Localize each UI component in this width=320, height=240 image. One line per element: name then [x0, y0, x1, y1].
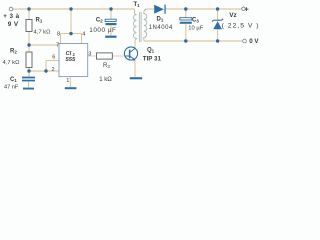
svg-text:1 kΩ: 1 kΩ — [99, 77, 112, 83]
svg-text:0 V: 0 V — [249, 38, 259, 45]
svg-text:R2: R2 — [10, 49, 17, 55]
svg-text:Vz: Vz — [229, 12, 236, 19]
svg-text:D1: D1 — [157, 16, 164, 22]
svg-text:1000 µF: 1000 µF — [89, 27, 116, 34]
svg-text:Q1: Q1 — [147, 47, 155, 53]
svg-text:R1: R1 — [36, 18, 43, 24]
svg-text:4,7 kΩ: 4,7 kΩ — [3, 60, 21, 66]
svg-text:6: 6 — [52, 55, 55, 61]
svg-text:1: 1 — [66, 78, 69, 84]
svg-text:2: 2 — [52, 67, 55, 73]
svg-text:4: 4 — [82, 32, 85, 38]
svg-text:T1: T1 — [134, 2, 141, 8]
svg-text:+ 3 à: + 3 à — [3, 13, 19, 20]
svg-text:4,7 kΩ: 4,7 kΩ — [34, 30, 52, 36]
svg-text:9 V: 9 V — [8, 21, 19, 28]
svg-text:555: 555 — [66, 57, 76, 63]
svg-text:C3: C3 — [192, 18, 199, 24]
svg-text:8: 8 — [57, 32, 60, 38]
svg-text:1N4004: 1N4004 — [149, 25, 173, 31]
svg-text:+: + — [244, 4, 249, 13]
svg-text:( 22,5 V ): ( 22,5 V ) — [222, 23, 260, 30]
svg-text:7: 7 — [56, 42, 59, 48]
svg-text:TIP 31: TIP 31 — [143, 56, 162, 63]
svg-text:47 nF: 47 nF — [4, 84, 19, 90]
svg-text:C2: C2 — [96, 18, 103, 24]
svg-text:3: 3 — [88, 51, 91, 57]
svg-text:C1: C1 — [10, 77, 17, 83]
svg-text:R3: R3 — [103, 63, 110, 69]
svg-text:10 µF: 10 µF — [188, 26, 203, 32]
